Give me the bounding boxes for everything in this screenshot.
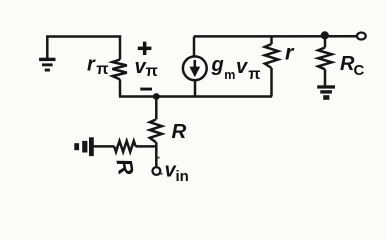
wire: r bottom lead bbox=[270, 68, 273, 97]
node dot: R_C output junction bbox=[321, 31, 329, 39]
wire: R bottom lead down to v_in terminal bbox=[155, 142, 158, 167]
svg-text:m: m bbox=[224, 68, 235, 82]
plus sign of v_pi bbox=[138, 42, 152, 55]
wire: from sideways ground to horizontal R bbox=[94, 145, 115, 148]
speck artifacts bbox=[158, 157, 160, 159]
svg-text:r: r bbox=[285, 41, 295, 65]
current source U1 circle bbox=[183, 56, 207, 80]
ground (below R_C) bbox=[317, 85, 335, 99]
minus sign of v_pi bbox=[140, 88, 152, 91]
svg-text:π: π bbox=[146, 63, 158, 80]
resistor R_C (zigzag) bbox=[318, 48, 332, 70]
terminal: output open circle bbox=[357, 33, 366, 40]
wire: current source bottom lead bbox=[194, 80, 197, 96]
svg-text:R: R bbox=[172, 120, 187, 143]
svg-text:g: g bbox=[211, 54, 224, 76]
resistor R horizontal (zigzag) bbox=[114, 141, 135, 152]
svg-text:r: r bbox=[87, 54, 96, 76]
wire: R_C bottom lead bbox=[324, 69, 327, 85]
ground (sideways, bottom left) bbox=[74, 137, 94, 156]
svg-text:in: in bbox=[176, 168, 189, 185]
svg-text:v: v bbox=[236, 56, 249, 78]
terminal: v_in open circle bbox=[153, 167, 161, 175]
svg-text:R: R bbox=[111, 157, 138, 177]
wire: current source top lead bbox=[193, 36, 196, 56]
wire: r_pi bottom lead bbox=[119, 79, 122, 96]
wire: horizontal R to v_in node bbox=[136, 145, 157, 148]
wire: bottom rail bbox=[119, 95, 272, 98]
wire: middle branch from node down to R bbox=[155, 97, 158, 120]
svg-text:π: π bbox=[248, 66, 260, 83]
wire: r top lead bbox=[270, 36, 273, 44]
resistor R vertical (zigzag) bbox=[150, 120, 162, 143]
ground (top left) bbox=[39, 58, 55, 72]
svg-text:C: C bbox=[354, 62, 365, 79]
resistor r (zigzag) bbox=[265, 44, 278, 68]
svg-text:π: π bbox=[96, 61, 108, 78]
wire: top-left rail from ground to r_pi bbox=[47, 37, 120, 60]
resistor r_pi (zigzag) bbox=[112, 60, 126, 80]
wire: R_C top lead bbox=[324, 36, 327, 47]
node dot: v_pi bottom junction bbox=[153, 93, 160, 100]
wire: top-right rail bbox=[194, 35, 357, 38]
current source arrow (down) bbox=[194, 60, 197, 69]
